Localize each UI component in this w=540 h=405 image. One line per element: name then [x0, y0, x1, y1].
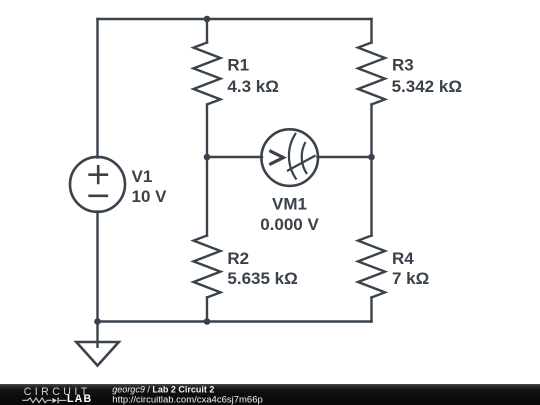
label R3 name	[392, 56, 414, 75]
svg-text:5.635 kΩ: 5.635 kΩ	[227, 269, 297, 288]
svg-text:georgc9 / Lab 2 Circuit 2: georgc9 / Lab 2 Circuit 2	[112, 385, 214, 395]
label R4 name	[392, 249, 414, 268]
wire R3 bottom lead	[370, 105, 372, 158]
CircuitLab logo text CIRCUIT	[24, 386, 88, 398]
resistor R1	[194, 43, 221, 105]
svg-text:R3: R3	[392, 56, 414, 75]
junction dot top (R1 top node)	[204, 16, 211, 23]
svg-text:R2: R2	[227, 249, 249, 268]
wire middle left (node to voltmeter)	[207, 156, 262, 158]
footer url line	[112, 394, 262, 405]
svg-text:R1: R1	[227, 56, 249, 75]
footer title line	[112, 385, 214, 395]
label VM1 name	[272, 195, 307, 214]
svg-text:5.342 kΩ: 5.342 kΩ	[392, 77, 462, 96]
label R2 value	[227, 269, 297, 288]
svg-text:VM1: VM1	[272, 195, 307, 214]
wire left vertical to V1 top	[96, 19, 98, 158]
junction dot middle left (node A)	[204, 154, 211, 161]
label R3 value	[392, 77, 462, 96]
wire top horizontal	[98, 18, 372, 20]
label R1 name	[227, 56, 249, 75]
label VM1 value	[260, 215, 319, 234]
svg-text:0.000 V: 0.000 V	[260, 215, 319, 234]
label V1 value	[132, 187, 168, 206]
wire R1 top lead	[206, 19, 208, 43]
label R4 value	[392, 269, 429, 288]
svg-text:V1: V1	[132, 167, 153, 186]
wire R4 bottom lead	[370, 298, 372, 322]
label R1 value	[227, 77, 278, 96]
svg-text:4.3 kΩ: 4.3 kΩ	[227, 77, 278, 96]
voltmeter VM1	[261, 129, 318, 186]
svg-text:http://circuitlab.com/cxa4c6sj: http://circuitlab.com/cxa4c6sj7m66p	[112, 394, 262, 405]
wire R1 bottom lead	[206, 105, 208, 158]
label V1 name	[132, 167, 153, 186]
svg-text:LAB: LAB	[67, 393, 92, 405]
wire V1 bottom to ground node	[96, 212, 98, 322]
junction dot bottom left (ground node)	[94, 318, 101, 325]
junction dot middle right (node B)	[368, 154, 375, 161]
wire R2 top lead	[206, 157, 208, 236]
wire R3 top lead	[370, 19, 372, 43]
svg-text:R4: R4	[392, 249, 414, 268]
resistor R2	[194, 236, 221, 298]
ground	[76, 322, 119, 366]
label R2 name	[227, 249, 249, 268]
junction dot bottom middle	[204, 318, 211, 325]
svg-text:10 V: 10 V	[132, 187, 168, 206]
wire middle right (voltmeter to node)	[318, 156, 372, 158]
wire R4 top lead	[370, 157, 372, 236]
voltage source V1	[70, 157, 125, 212]
wire R2 bottom lead	[206, 298, 208, 322]
CircuitLab logo text LAB	[67, 393, 92, 405]
resistor R4	[358, 236, 385, 298]
resistor R3	[358, 43, 385, 105]
CircuitLab logo squiggle and diode	[22, 398, 66, 404]
wire bottom horizontal	[98, 320, 372, 322]
svg-text:7 kΩ: 7 kΩ	[392, 269, 429, 288]
